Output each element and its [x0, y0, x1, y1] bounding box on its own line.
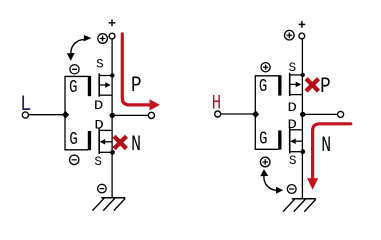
- charge symbol: hole at +V (left): [98, 34, 108, 44]
- gate box Q4 (right bottom): [255, 130, 282, 149]
- charge symbol: electron at ground (left): [98, 184, 107, 193]
- svg-text:N: N: [321, 133, 331, 158]
- svg-text:P: P: [320, 73, 331, 98]
- charge symbol: electron below Q2 gate (left): [70, 155, 79, 164]
- blocked indicator: X on N (left): [114, 136, 126, 148]
- svg-text:S: S: [289, 61, 297, 75]
- wire: right gate bus: [254, 76, 256, 150]
- svg-text:N: N: [131, 132, 141, 157]
- junction: Q3 source dot: [301, 73, 305, 77]
- svg-text:S: S: [289, 154, 297, 168]
- transistor Q2 N-channel (left bottom): [99, 128, 112, 154]
- junction: Q1 source dot: [110, 73, 114, 77]
- wire: left gate bus: [64, 76, 66, 149]
- svg-text:D: D: [94, 119, 103, 133]
- junction: Q2 source dot: [110, 150, 115, 155]
- svg-text:G: G: [259, 128, 267, 149]
- svg-text:G: G: [259, 75, 267, 96]
- terminal: H input: [215, 111, 221, 117]
- svg-text:G: G: [69, 76, 77, 97]
- wire: left output: [112, 114, 148, 116]
- terminal: right output: [338, 111, 344, 117]
- transistor Q3 P-channel (right top): [290, 73, 303, 96]
- curved arrow: attraction (left): [67, 35, 92, 61]
- svg-text:S: S: [94, 155, 102, 169]
- charge symbol: hole at +V (right): [285, 30, 295, 40]
- svg-text:G: G: [69, 128, 77, 149]
- charge symbol: hole below Q4 gate (right): [260, 157, 270, 167]
- junction: Q4 source dot: [300, 149, 305, 154]
- ground (left): [93, 198, 126, 211]
- current path: N conducts (red arrow, right): [307, 124, 351, 190]
- svg-text:P: P: [131, 72, 142, 97]
- junction: left output node: [110, 113, 115, 118]
- wire: right output: [302, 113, 337, 115]
- svg-text:D: D: [288, 101, 297, 115]
- junction: right output node: [300, 112, 305, 117]
- wire: left main vertical: [111, 39, 113, 198]
- charge symbol: hole at Q3 gate (right): [261, 63, 270, 72]
- svg-text:D: D: [288, 118, 297, 132]
- junction: right gate node: [252, 111, 259, 118]
- charge symbol: electron at Q1 gate (left): [70, 65, 79, 74]
- gate box Q2 (left bottom): [64, 131, 91, 150]
- charge symbol: electron at ground (right): [287, 185, 296, 194]
- terminal: +V (left): [109, 33, 115, 39]
- gate box Q3 (right top): [255, 75, 282, 95]
- terminal: L input: [22, 112, 28, 118]
- wire: H input to gate bus: [221, 113, 256, 115]
- current path: P conducts (red arrow, left): [122, 34, 160, 111]
- terminal: left output: [148, 112, 154, 118]
- junction: left gate node: [62, 111, 69, 119]
- transistor Q1 P-channel (left top): [99, 73, 112, 96]
- blocked indicator: X on P (right): [306, 79, 318, 91]
- ground (right): [283, 199, 316, 212]
- wire: L input to gate bus: [29, 114, 65, 116]
- gate box Q1 (left top): [64, 76, 91, 96]
- wire: right main vertical: [301, 39, 303, 199]
- terminal: +V (right): [299, 33, 305, 39]
- svg-text:D: D: [94, 99, 103, 113]
- power + label (left): [109, 20, 116, 27]
- power + label (right): [299, 21, 306, 28]
- svg-text:S: S: [96, 58, 104, 72]
- transistor Q4 N-channel (right bottom): [290, 127, 303, 153]
- curved arrow: attraction (right): [260, 169, 283, 193]
